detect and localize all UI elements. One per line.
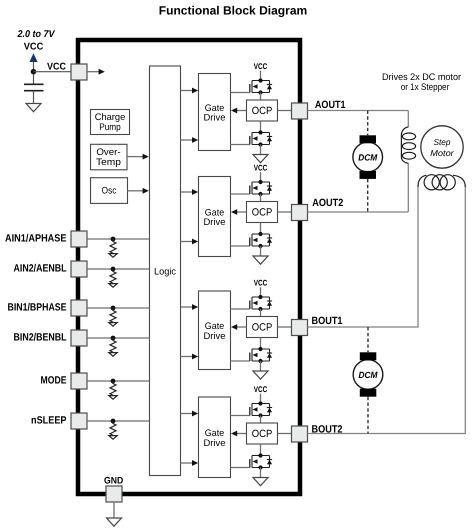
resistor pulldown on AIN2/AENBL xyxy=(109,267,117,288)
net label VCC channel 3 xyxy=(254,279,268,288)
net label AIN2/AENBL xyxy=(14,262,67,274)
wire logic to gate-drive 1 (bottom) xyxy=(181,137,199,143)
wire BOUT1 xyxy=(308,326,419,328)
inductor winding A (stepper) xyxy=(401,111,415,213)
capacitor C1 xyxy=(24,84,44,90)
wire Q8 source to ground xyxy=(260,468,262,478)
svg-text:AIN2/AENBL: AIN2/AENBL xyxy=(14,262,67,274)
OCP block 2 xyxy=(247,202,278,223)
wire cap to ground xyxy=(33,91,35,104)
ground channel 2 xyxy=(253,256,268,264)
net label BOUT2 xyxy=(312,423,343,435)
wire Q6 source to ground xyxy=(260,361,262,371)
svg-text:GND: GND xyxy=(104,476,123,487)
wire VCC to Q1 drain xyxy=(260,71,262,81)
svg-text:Drive: Drive xyxy=(204,113,226,124)
svg-text:DCM: DCM xyxy=(359,370,378,380)
motor DCM2 xyxy=(353,352,383,396)
IC package outline U1 xyxy=(78,40,300,494)
pin AOUT2 xyxy=(292,205,308,221)
VCC supply symbol xyxy=(24,42,44,63)
wire OCP to Q2 drain xyxy=(260,121,262,133)
pin BIN1/BPHASE xyxy=(71,300,87,316)
svg-text:MODE: MODE xyxy=(41,374,67,386)
wire BIN1/BPHASE to logic xyxy=(87,307,150,309)
wire OCP to Q4 drain xyxy=(260,223,262,235)
svg-text:VCC: VCC xyxy=(254,385,268,394)
gate drive block 4 xyxy=(199,397,231,478)
wire MODE to logic xyxy=(87,380,150,382)
pin VCC xyxy=(71,64,87,80)
svg-text:BIN2/BENBL: BIN2/BENBL xyxy=(14,331,67,343)
wire supply vertical xyxy=(33,62,35,84)
wire Q5 source to OCP xyxy=(260,309,262,317)
motor Step Motor xyxy=(421,126,463,168)
svg-text:AOUT1: AOUT1 xyxy=(315,99,346,111)
pin BOUT1 xyxy=(292,320,308,336)
wire logic to gate-drive 2 (top) xyxy=(181,189,199,195)
svg-text:Functional Block Diagram: Functional Block Diagram xyxy=(159,3,308,17)
svg-text:Motor: Motor xyxy=(430,148,455,158)
svg-text:nSLEEP: nSLEEP xyxy=(31,414,67,426)
wire AOUT2 xyxy=(308,211,409,213)
wire Q3 source to OCP xyxy=(260,194,262,202)
wire AOUT1 xyxy=(308,110,409,112)
net label VCC at pin xyxy=(47,61,66,72)
ground channel 3 xyxy=(253,371,268,379)
resistor pulldown on BIN2/BENBL xyxy=(109,336,117,357)
svg-text:DCM: DCM xyxy=(358,153,377,163)
charge pump block xyxy=(91,110,130,135)
ground (GND pin) xyxy=(107,518,122,526)
svg-text:VCC: VCC xyxy=(254,279,268,288)
wire Q2 source to ground xyxy=(260,145,262,155)
wire VCC to Q7 drain xyxy=(260,394,262,404)
oscillator block xyxy=(91,178,128,204)
transistor Q1 (high side) xyxy=(250,78,272,94)
transistor Q6 (low side) xyxy=(250,347,272,363)
wire DCM2 lead top (dashed) xyxy=(367,327,369,352)
svg-text:AOUT2: AOUT2 xyxy=(312,197,343,209)
wire OCP 3 to output pin xyxy=(278,326,292,328)
transistor Q5 (high side) xyxy=(250,295,272,311)
svg-text:Temp: Temp xyxy=(96,157,121,168)
wire OCP 4 to output pin xyxy=(278,433,292,435)
gate drive block 2 xyxy=(199,177,231,257)
net label nSLEEP xyxy=(31,414,67,426)
svg-text:Drive: Drive xyxy=(204,331,226,342)
inductor winding B (stepper) xyxy=(418,175,465,190)
wire OCP 2 to gate drive (fault arrow) xyxy=(231,209,247,215)
note drives text xyxy=(382,72,461,93)
wire winding B right drop xyxy=(464,187,466,434)
wire BIN2/BENBL to logic xyxy=(87,337,150,339)
ground channel 4 xyxy=(253,478,268,486)
transistor Q4 (low side) xyxy=(250,232,272,248)
net label AOUT2 xyxy=(312,197,343,209)
wire Q1 source to OCP xyxy=(260,93,262,101)
pin BOUT2 xyxy=(292,426,308,442)
svg-text:or 1x Stepper: or 1x Stepper xyxy=(401,82,450,93)
over-temp block xyxy=(91,144,128,170)
wire logic to gate-drive 4 (top) xyxy=(181,411,199,417)
net label VCC channel 2 xyxy=(254,164,268,173)
motor DCM1 xyxy=(353,135,383,179)
wire VCC to Q3 drain xyxy=(260,172,262,182)
svg-text:Step: Step xyxy=(434,137,451,147)
transistor Q7 (high side) xyxy=(250,401,272,417)
svg-text:OCP: OCP xyxy=(252,207,273,219)
net label AIN1/APHASE xyxy=(5,232,67,244)
resistor pulldown on nSLEEP xyxy=(109,419,117,440)
svg-text:VCC: VCC xyxy=(254,62,268,71)
svg-text:VCC: VCC xyxy=(254,164,268,173)
svg-text:OCP: OCP xyxy=(252,428,273,440)
svg-text:Logic: Logic xyxy=(154,267,176,278)
net label GND xyxy=(104,476,123,487)
logic block xyxy=(150,66,181,476)
svg-text:VCC: VCC xyxy=(47,61,66,72)
gate drive block 1 xyxy=(199,74,231,151)
wire gate lead Q4 xyxy=(231,245,250,247)
pin MODE xyxy=(71,373,87,389)
wire OCP 1 to output pin xyxy=(278,110,292,112)
wire GND to ground xyxy=(113,502,115,518)
pin nSLEEP xyxy=(71,413,87,429)
wire Q4 source to ground xyxy=(260,246,262,256)
net label BOUT1 xyxy=(312,315,343,327)
wire osc to logic xyxy=(128,188,149,194)
svg-text:OCP: OCP xyxy=(252,105,273,117)
wire logic to gate-drive 2 (bottom) xyxy=(181,239,199,245)
wire OCP to Q6 drain xyxy=(260,338,262,350)
resistor pulldown on AIN1/APHASE xyxy=(109,237,117,258)
wire gate lead Q3 xyxy=(231,193,250,195)
wire OCP 4 to gate drive (fault arrow) xyxy=(231,431,247,437)
wire logic to gate-drive 3 (top) xyxy=(181,304,199,310)
net label BIN1/BPHASE xyxy=(8,301,67,313)
wire Q7 source to OCP xyxy=(260,416,262,424)
svg-text:BIN1/BPHASE: BIN1/BPHASE xyxy=(8,301,67,313)
transistor Q3 (high side) xyxy=(250,180,272,196)
wire gate lead Q6 xyxy=(231,360,250,362)
supply label 2.0 to 7V xyxy=(17,29,56,40)
pin AIN2/AENBL xyxy=(71,261,87,277)
svg-text:VCC: VCC xyxy=(24,42,44,53)
ground channel 1 xyxy=(253,155,268,163)
pin BIN2/BENBL xyxy=(71,330,87,346)
wire AIN1/APHASE to logic xyxy=(87,238,150,240)
wire OCP 1 to gate drive (fault arrow) xyxy=(231,108,247,114)
svg-text:AIN1/APHASE: AIN1/APHASE xyxy=(5,232,67,244)
OCP block 1 xyxy=(247,100,278,121)
svg-text:2.0 to 7V: 2.0 to 7V xyxy=(17,29,56,40)
svg-text:BOUT1: BOUT1 xyxy=(312,315,343,327)
wire logic to gate-drive 4 (bottom) xyxy=(181,460,199,466)
wire logic to gate-drive 3 (bottom) xyxy=(181,354,199,360)
transistor Q2 (low side) xyxy=(250,130,272,146)
svg-text:Osc: Osc xyxy=(102,186,117,197)
wire BOUT2 xyxy=(308,433,466,435)
pin GND xyxy=(106,486,122,502)
svg-text:OCP: OCP xyxy=(252,322,273,334)
wire OCP 3 to gate drive (fault arrow) xyxy=(231,324,247,330)
OCP block 3 xyxy=(247,317,278,338)
wire OCP to Q8 drain xyxy=(260,444,262,456)
wire DCM2 lead bottom (dashed) xyxy=(367,397,369,434)
svg-text:Pump: Pump xyxy=(99,122,121,133)
net label MODE xyxy=(41,374,67,386)
wire VCC arrow inside xyxy=(87,69,105,75)
wire gate lead Q2 xyxy=(231,144,250,146)
wire over-temp to logic xyxy=(127,154,149,160)
svg-text:Drive: Drive xyxy=(204,217,226,228)
wire gate lead Q1 xyxy=(231,92,250,94)
wire gate lead Q8 xyxy=(231,467,250,469)
transistor Q8 (low side) xyxy=(250,453,272,469)
pin AOUT1 xyxy=(292,103,308,119)
wire DCM1 lead top (dashed) xyxy=(367,111,369,136)
node VCC junction xyxy=(31,69,37,75)
svg-text:Drive: Drive xyxy=(204,438,226,449)
net label AOUT1 xyxy=(315,99,346,111)
resistor pulldown on BIN1/BPHASE xyxy=(109,306,117,327)
wire winding B left drop xyxy=(417,187,419,327)
wire gate lead Q5 xyxy=(231,308,250,310)
resistor pulldown on MODE xyxy=(109,379,117,400)
gate drive block 3 xyxy=(199,291,231,370)
title xyxy=(159,3,308,17)
wire gate lead Q7 xyxy=(231,415,250,417)
net label VCC channel 1 xyxy=(254,62,268,71)
wire AIN2/AENBL to logic xyxy=(87,268,150,270)
wire VCC to Q5 drain xyxy=(260,287,262,297)
OCP block 4 xyxy=(247,423,278,444)
wire OCP 2 to output pin xyxy=(278,211,292,213)
wire DCM1 lead bottom (dashed) xyxy=(367,179,369,212)
ground (supply) xyxy=(26,104,41,112)
net label BIN2/BENBL xyxy=(14,331,67,343)
wire logic to gate-drive 1 (top) xyxy=(181,88,199,94)
pin AIN1/APHASE xyxy=(71,231,87,247)
net label VCC channel 4 xyxy=(254,385,268,394)
wire nSLEEP to logic xyxy=(87,420,150,422)
wire VCC to pin xyxy=(34,71,72,73)
